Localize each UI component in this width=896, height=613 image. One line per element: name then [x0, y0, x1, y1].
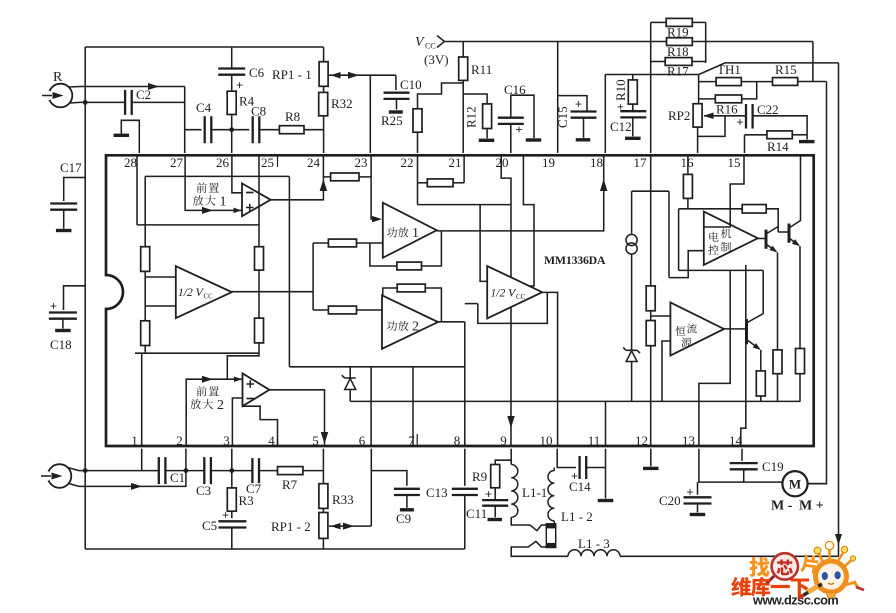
capacitor C19	[730, 463, 758, 469]
wire RP1-2 wiper to pin 6 column	[329, 525, 371, 527]
label 前置 of preamp2	[196, 386, 206, 396]
wire C20 from pin 13 wire	[697, 482, 699, 495]
svg-text:8: 8	[454, 433, 461, 448]
wire current source output to transistor Q3	[724, 328, 745, 330]
capacitor C11	[482, 500, 508, 506]
svg-text:R11: R11	[471, 62, 492, 77]
resistor Q3 emitter	[756, 371, 765, 396]
wire half-Vcc center output to pin 10	[542, 292, 557, 446]
capacitor C14	[580, 456, 587, 479]
svg-text:M +: M +	[799, 499, 824, 514]
capacitor C10	[384, 93, 410, 99]
inductor L1-2	[553, 468, 555, 471]
wire internal resistor column x260	[227, 176, 259, 379]
wire preamp1 top bus	[145, 175, 289, 177]
svg-text:25: 25	[261, 155, 274, 170]
capacitor C3	[204, 457, 211, 484]
svg-text:7: 7	[408, 433, 415, 448]
svg-text:17: 17	[634, 155, 648, 170]
svg-text:5: 5	[312, 433, 319, 448]
svg-text:C20: C20	[659, 493, 681, 508]
svg-text:2: 2	[412, 320, 419, 335]
wire gain bus to amp2 input with resistor	[313, 309, 382, 311]
svg-text:MM1336DA: MM1336DA	[544, 253, 606, 267]
wire C6 to R4	[231, 75, 233, 91]
wire C18 to ground	[62, 319, 64, 329]
wire pin 27 external column	[184, 87, 186, 154]
wire C16 to pin 20	[510, 124, 512, 153]
svg-text:1/2: 1/2	[178, 287, 193, 299]
resistor R19	[651, 21, 667, 23]
svg-text:1: 1	[412, 226, 419, 241]
transistor Q2	[778, 231, 789, 233]
resistor Q1 emitter	[773, 350, 782, 374]
wire C9 branch from pin 6 column	[371, 471, 407, 486]
wire zener to ground bus	[631, 362, 633, 402]
wire pin 14 internal column	[741, 265, 746, 446]
resistor R11	[459, 57, 468, 80]
svg-text:CC: CC	[516, 293, 526, 301]
wire C11 to ground	[494, 506, 496, 518]
wire pin 27 column to C4	[185, 129, 202, 131]
wire C15 to ground	[583, 118, 585, 138]
wire Vcc rail to top right corner	[445, 41, 813, 43]
wire top rail from left rail to RP1-1 top	[85, 46, 323, 48]
wire pin 3 internal to preamp2 inverting input	[232, 398, 242, 446]
watermark magnifier circle with 芯	[772, 553, 798, 579]
wire R9 to C11	[494, 488, 496, 500]
label 放大1 of preamp1	[193, 195, 203, 205]
diode zener internal	[349, 367, 351, 402]
resistor internal left-bottom	[141, 321, 150, 346]
ground for C9	[400, 508, 414, 511]
svg-text:R15: R15	[775, 62, 797, 77]
wire C13 to bottom rail	[464, 495, 466, 549]
wire amp2 feedback resistor above	[383, 288, 397, 295]
svg-text:R9: R9	[472, 469, 487, 484]
svg-text:2: 2	[217, 398, 224, 413]
wire branch to current source circles	[632, 190, 669, 192]
wire C2 right plate to pin 27 column	[132, 101, 185, 103]
capacitor C5	[218, 521, 246, 527]
ground for C20	[690, 513, 706, 516]
svg-text:R8: R8	[285, 109, 300, 124]
wire between stacked resistors	[650, 311, 652, 321]
wire pin 13 internal loop	[699, 270, 730, 446]
wire Q2 emitter resistor to ground bus end	[799, 374, 801, 402]
watermark mascot eyes	[822, 572, 828, 580]
wire C3 to pin3 junction	[211, 470, 232, 472]
svg-text:R12: R12	[464, 106, 479, 128]
wire motor to M+ column	[808, 483, 827, 485]
svg-text:6: 6	[359, 433, 366, 448]
resistor R12	[483, 104, 492, 129]
ground for C11	[488, 518, 503, 521]
op-amp preamp1 前置放大1	[242, 183, 271, 216]
svg-text:C19: C19	[762, 459, 784, 474]
watermark mascot body	[826, 591, 836, 598]
capacitor C8	[253, 116, 260, 143]
wire outer bottom rail to C13	[85, 548, 465, 550]
watermark 片 character	[800, 554, 819, 574]
capacitor C20	[684, 497, 712, 503]
node junction dot pin 3	[229, 468, 234, 473]
resistor internal pin22-pin21	[418, 182, 428, 184]
ground for C10	[389, 110, 403, 113]
ground for C15	[576, 138, 591, 141]
wire pin 9 external column	[510, 449, 512, 465]
wire R10 to C12	[632, 104, 634, 111]
wire C7 to R7	[259, 470, 277, 472]
resistor above motor control	[742, 205, 766, 214]
motor M	[782, 471, 807, 496]
svg-text:1: 1	[220, 195, 227, 210]
wire C22 right to ground corner	[753, 116, 807, 140]
svg-text:22: 22	[401, 155, 414, 170]
wire C17 to left rail	[64, 178, 85, 202]
wire pin 15 internal to motor control input	[704, 155, 744, 227]
node junction dot on left rail bottom	[83, 468, 88, 473]
label 恒流 of current source	[675, 326, 685, 336]
svg-text:15: 15	[728, 155, 741, 170]
op-amp power amp2 功放2	[382, 295, 438, 349]
ground for C22/R14	[799, 140, 815, 143]
wire pin 1 internal column	[141, 353, 143, 446]
svg-text:23: 23	[355, 155, 368, 170]
wire amp1 output to pin 18 arrow	[437, 157, 604, 231]
wire RP2 bottom to pin 16 with wiper return	[697, 127, 699, 153]
watermark mascot antennae	[819, 549, 852, 566]
resistor R15	[773, 78, 798, 86]
wire C10 to ground	[396, 99, 398, 110]
wire C17 to ground	[63, 210, 65, 229]
svg-text:13: 13	[682, 433, 695, 448]
wire R3 to C5	[231, 511, 233, 518]
resistor internal pin24-pin23	[323, 176, 371, 178]
svg-text:26: 26	[216, 155, 230, 170]
wire C19 to motor wire	[743, 469, 745, 482]
wire pin 13 external to motor	[699, 449, 783, 482]
wire C9 to ground	[406, 495, 408, 508]
resistor R25	[413, 109, 422, 132]
svg-text:+: +	[485, 487, 492, 501]
svg-text:C10: C10	[400, 77, 422, 92]
wire C18 to left rail	[64, 286, 86, 310]
capacitor C7	[252, 458, 259, 483]
resistor feedback amp1 input	[328, 239, 356, 247]
wire pin 5 external column	[322, 449, 324, 484]
svg-text:12: 12	[635, 433, 648, 448]
resistor feedback amp2 input	[328, 306, 356, 314]
resistor R18 inline on Vcc rail	[667, 38, 693, 46]
wire preamp2 feedback below	[243, 406, 278, 446]
wire RP2 wiper to C22	[704, 115, 746, 117]
wire pin18 node to R17 cluster and RP2 diagonal	[605, 74, 699, 76]
watermark mascot pen arm	[802, 584, 822, 596]
wire L1-3 to outer right line	[620, 555, 839, 557]
svg-text:+: +	[50, 299, 57, 313]
wire half-Vcc left output to amp bus	[232, 291, 313, 293]
svg-text:R16: R16	[716, 102, 738, 117]
capacitor C22	[746, 104, 753, 129]
wire drop into half-Vcc center top	[480, 205, 487, 282]
wire R9 bracket from pin 9	[495, 460, 511, 464]
svg-text:R32: R32	[331, 96, 353, 111]
capacitor C2	[125, 90, 132, 115]
wire pin 22 internal column	[417, 155, 419, 204]
wire RP1-2 to bottom rail	[322, 538, 324, 549]
svg-text:V: V	[415, 35, 425, 50]
ground for C18	[55, 329, 71, 332]
op-amp current source 恒流源	[670, 302, 724, 355]
svg-text:R14: R14	[767, 139, 789, 154]
wire pin 10 external to L1-2 and C14	[557, 449, 576, 468]
wire TH1 to R15	[741, 81, 772, 83]
svg-text:+: +	[615, 104, 627, 110]
inductor L1-3	[568, 550, 620, 557]
wire internal resistor column x145	[144, 176, 146, 353]
wire top rail to C6	[231, 47, 233, 69]
wire R jack lower line to C2	[70, 101, 126, 104]
wire R12 branch	[463, 94, 487, 104]
resistor internal current-source top	[646, 286, 655, 311]
wire R12 to ground	[486, 129, 488, 139]
wire preamp1 output to pin 24 arrow	[271, 157, 324, 200]
svg-text:+: +	[737, 115, 744, 129]
wire pin 2 internal to preamp2 plus input	[186, 379, 242, 446]
wire current source lower input	[662, 341, 670, 401]
wire pin 19 internal staircase	[523, 155, 534, 286]
wire R11 to pin 21	[462, 80, 464, 153]
svg-text:C22: C22	[757, 102, 779, 117]
wire half-Vcc center feedback	[478, 292, 548, 323]
svg-text:R18: R18	[667, 44, 689, 59]
svg-text:C1: C1	[170, 470, 185, 485]
capacitor C6	[218, 69, 245, 75]
wire core bottom tap to L1-3 line	[511, 541, 568, 556]
wire C20 to ground	[697, 504, 699, 513]
svg-text:R17: R17	[667, 64, 689, 79]
ground for pin 28	[114, 134, 130, 137]
wire pin 2 external	[185, 449, 187, 471]
watermark mascot right arm	[845, 581, 858, 588]
ground for pin 12	[643, 467, 659, 470]
wire Q1 emitter resistor to ground bus	[777, 374, 779, 402]
svg-text:C11: C11	[466, 506, 487, 521]
transistor Q3	[745, 319, 748, 344]
wire L1-1 bottom to core tap	[511, 517, 546, 530]
svg-text:+: +	[222, 508, 229, 522]
wire TH1 left down to RP2	[699, 81, 717, 83]
op-amp motor control 电机控制	[704, 212, 758, 265]
svg-text:M: M	[789, 477, 801, 492]
potentiometer RP2	[693, 104, 702, 127]
node junction dot pin 2	[184, 468, 189, 473]
resistor R16	[699, 98, 716, 100]
wire pin 11 internal stub	[605, 401, 607, 446]
wire R jack top line to pin 27 column	[69, 86, 185, 89]
wire Vcc corner down to R15	[812, 42, 814, 82]
svg-text:2: 2	[176, 433, 183, 448]
ground for C14	[598, 499, 614, 502]
svg-text:L1-1: L1-1	[522, 485, 547, 500]
wire gain bus to amp1 inverting input with resistor	[313, 242, 383, 244]
svg-text:20: 20	[496, 155, 509, 170]
svg-text:19: 19	[542, 155, 555, 170]
svg-text:L1 - 3: L1 - 3	[578, 536, 610, 551]
svg-text:C12: C12	[610, 119, 632, 134]
svg-text:C17: C17	[60, 160, 82, 175]
svg-text:R10: R10	[613, 79, 628, 101]
resistor internal left-top	[141, 247, 150, 272]
watermark 找 character	[749, 557, 769, 577]
wire pin 14 external to C19	[741, 449, 743, 461]
svg-text:C15: C15	[555, 106, 570, 128]
label 前置 of preamp1	[196, 183, 206, 193]
wire pin 8 external to C13	[464, 449, 466, 486]
wire pin 17 external column up to R19	[650, 22, 652, 153]
inductor L1-1	[511, 465, 518, 518]
wire pin3 junction to C7	[232, 470, 253, 472]
resistor Q2 emitter	[796, 349, 805, 374]
wire R7 to pin 5 column	[303, 470, 324, 472]
wire L jack top line to C1	[68, 468, 159, 471]
wire R14 right to ground corner	[792, 134, 807, 136]
wire pin 15 external	[744, 135, 746, 153]
wire pin 25 stub to preamp1 top bus	[258, 155, 260, 176]
svg-text:L1 - 2: L1 - 2	[561, 509, 593, 524]
wire outer right line down to bottom with arrow	[838, 63, 840, 556]
wire R10 from node	[632, 75, 634, 80]
label 源 of current source	[681, 338, 691, 348]
wire R3 on pin3 column	[231, 471, 233, 488]
transistor Q1	[765, 230, 768, 249]
wire half-Vcc left inputs	[145, 276, 176, 278]
label 功放1	[387, 227, 397, 237]
wire pin2 junction to C3	[186, 470, 204, 472]
op-amp half-Vcc center	[487, 266, 542, 318]
svg-text:C5: C5	[202, 518, 217, 533]
resistor R32	[319, 92, 328, 115]
wire pin 16 internal resistor	[687, 155, 689, 174]
pin 7 stub	[416, 434, 418, 446]
svg-text:RP2: RP2	[668, 108, 690, 123]
svg-text:+: +	[571, 469, 578, 483]
wire motor control lower input loop	[669, 251, 704, 278]
svg-text:24: 24	[307, 155, 321, 170]
wire pin 1 external	[141, 449, 143, 471]
wire RP1-1 to R32	[323, 86, 325, 92]
wire pin 19 column to Vcc	[557, 42, 559, 154]
svg-text:1/2: 1/2	[491, 288, 506, 300]
resistor R10	[628, 80, 637, 104]
wire pin 17 internal column with resistors	[650, 155, 652, 286]
svg-text:21: 21	[449, 155, 462, 170]
capacitor C13	[452, 489, 478, 495]
potentiometer RP1-1	[319, 62, 328, 87]
svg-text:C8: C8	[251, 104, 266, 119]
resistor R7	[278, 467, 303, 475]
wire pin 7 internal column	[412, 367, 414, 446]
svg-text:TH1: TH1	[717, 62, 741, 77]
wire between stacked resistors to 恒流源 input	[651, 315, 671, 317]
wire preamp1 feedback bus	[137, 224, 259, 226]
svg-text:+: +	[516, 123, 523, 137]
resistor R3	[227, 488, 236, 511]
op-amp power amp1 功放1	[383, 203, 437, 258]
svg-text:R25: R25	[381, 113, 403, 128]
capacitor C18	[49, 313, 77, 319]
wire internal bus y353	[135, 352, 259, 354]
svg-text:R33: R33	[332, 492, 354, 507]
wire R33 to RP1-2	[322, 508, 324, 512]
svg-text:C4: C4	[196, 100, 212, 115]
svg-text:27: 27	[170, 155, 184, 170]
wire pin 26 internal to preamp1 inverting input	[232, 155, 242, 193]
ground for R12	[479, 139, 495, 142]
wire C8 to R8	[259, 129, 279, 131]
resistor R4	[227, 91, 236, 114]
svg-text:1: 1	[131, 433, 138, 448]
svg-text:R: R	[53, 70, 63, 85]
wire C1 to pin2 junction	[166, 470, 186, 472]
svg-text:+: +	[236, 78, 243, 92]
svg-text:4: 4	[268, 433, 275, 448]
ground for C17	[56, 229, 71, 232]
ground for C16 bracket	[526, 138, 542, 141]
svg-text:10: 10	[540, 433, 553, 448]
wire feedback bus y270 for motor control	[679, 269, 764, 271]
wire C15 top bracket from pin 19 line	[558, 96, 587, 112]
svg-text:R7: R7	[282, 477, 298, 492]
resistor internal mid-bottom	[255, 318, 264, 343]
wire pin 3 external	[231, 449, 233, 471]
svg-text:RP1 - 1: RP1 - 1	[272, 67, 312, 82]
svg-text:18: 18	[590, 155, 603, 170]
wire R14 left to pin 15	[745, 134, 767, 136]
wire L1-2 bottom to core	[553, 521, 555, 524]
capacitor C4	[205, 116, 212, 143]
wire pin 20 internal to pin 9 arrow column	[501, 155, 511, 446]
IC MM1336DA body outline	[106, 155, 814, 446]
wire pin 23 external column	[369, 75, 371, 153]
svg-text:CC: CC	[425, 42, 436, 51]
wire amp input bus column	[312, 243, 314, 310]
resistor R9	[491, 465, 500, 488]
label 电机 of motor control	[709, 232, 718, 242]
wire pin 18 column up	[604, 75, 606, 154]
current source symbol double circle	[631, 191, 633, 233]
wire arrow into R jack	[42, 95, 52, 97]
resistor R17	[651, 61, 666, 63]
wire Q3 emitter resistor to ground bus	[760, 396, 762, 401]
svg-text:C9: C9	[396, 511, 411, 526]
node junction dot on left rail	[83, 100, 88, 105]
wire pin 6 external column	[370, 449, 372, 526]
wire bias bus y208 to motor-control resistor	[679, 208, 743, 210]
thermistor TH1	[716, 78, 741, 86]
wire amp1 feedback resistor	[370, 243, 397, 266]
wire R11 bottom to R25 top	[418, 83, 464, 109]
resistor R33	[319, 484, 328, 509]
svg-text:9: 9	[500, 433, 507, 448]
node L input jack	[48, 464, 72, 488]
wire C4 to junction	[211, 129, 231, 131]
wire motor plus column down	[808, 82, 827, 484]
wire pin 23 internal to amp1 input arrow	[370, 155, 373, 219]
svg-text:R3: R3	[239, 493, 254, 508]
wire C16 top bracket to ground	[511, 95, 534, 138]
